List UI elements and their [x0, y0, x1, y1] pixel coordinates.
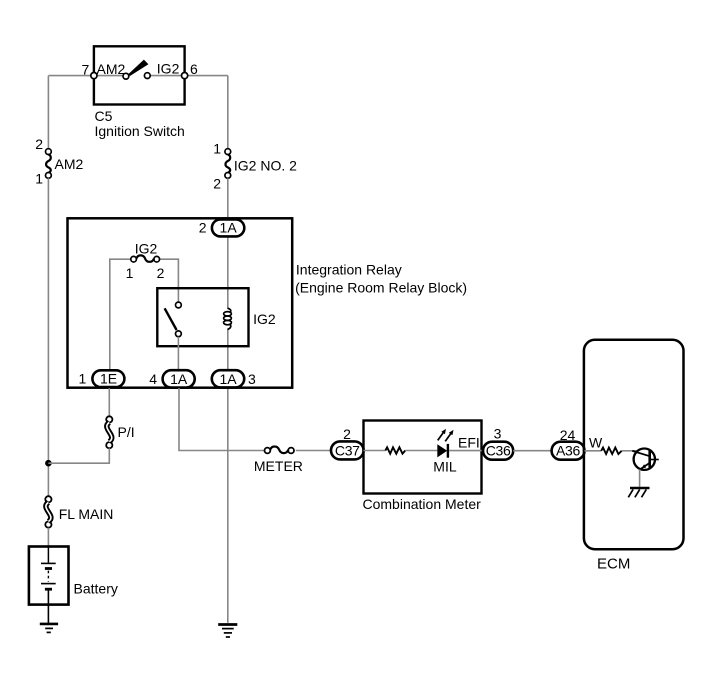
wire: IG2 fuse left branch down to connector 1E [110, 259, 131, 370]
pin label 1 (IG2 NO. 2 top) [213, 141, 221, 157]
fuse METER [265, 447, 295, 454]
svg-text:7: 7 [82, 62, 90, 78]
relay switch lever [165, 308, 177, 330]
pin label 7 [82, 62, 90, 78]
wire: LED to connector C36 [449, 450, 484, 452]
label Integration Relay [296, 261, 402, 277]
label EFI [458, 434, 480, 450]
svg-text:1: 1 [35, 171, 43, 187]
wire: pin 6 to right rail [185, 75, 228, 77]
svg-text:2: 2 [343, 426, 351, 442]
wire: left rail AM2 fuse down to FL MAIN [47, 178, 49, 496]
svg-text:A36: A36 [556, 443, 581, 459]
switch fixed contact [144, 73, 150, 79]
pin label 2 (C37) [343, 426, 351, 442]
svg-text:EFI: EFI [458, 434, 480, 450]
wire: A36 into ECM to resistor [585, 450, 602, 452]
svg-text:C36: C36 [486, 443, 511, 459]
svg-text:1: 1 [79, 371, 87, 387]
svg-text:Battery: Battery [74, 581, 118, 597]
wire: fuse IG2 NO. 2 down to connector 1A top [227, 178, 229, 219]
wire: IG2 fuse right branch down to relay switch [160, 259, 179, 302]
svg-text:1: 1 [213, 141, 221, 157]
svg-text:1A: 1A [170, 371, 188, 387]
pin label 3 (connector 1A pin 3) [248, 371, 256, 387]
fuse IG2 (inside relay block) [131, 255, 160, 262]
connector oval C37 (pin 2) [331, 441, 364, 459]
label Battery [74, 581, 118, 597]
value label METER [254, 458, 303, 474]
junction dot (P/I branch) [45, 460, 52, 467]
wire: resistor to transistor base [622, 450, 637, 452]
wire: left rail down to fuse AM2 [47, 76, 49, 150]
value label IG2 NO. 2 [234, 158, 297, 174]
svg-text:Integration Relay: Integration Relay [296, 261, 402, 277]
ground (relay block) [218, 625, 237, 638]
svg-text:1E: 1E [100, 371, 117, 387]
label C5 [95, 108, 113, 124]
wire: connector 1E down to fusible link P/I [108, 388, 110, 416]
connector oval 1A (top, pin 2) [212, 219, 244, 236]
svg-text:W: W [589, 435, 603, 451]
combination meter box [364, 421, 482, 494]
wire: P/I down and left to junction [48, 448, 109, 463]
integration relay box [68, 218, 293, 387]
switch pivot contact [123, 73, 129, 79]
svg-text:1A: 1A [220, 219, 238, 235]
svg-text:Ignition Switch: Ignition Switch [95, 123, 185, 139]
wire: C37 to resistor (inside meter) [364, 450, 386, 452]
pin label 2 (connector 1A top) [199, 219, 207, 235]
fuse AM2 [46, 149, 52, 179]
relay coil IG2 [224, 308, 232, 329]
relay switch contact (bottom) [176, 331, 182, 337]
terminal label IG2 [157, 61, 180, 77]
connector oval A36 (pin 24) [552, 442, 585, 460]
svg-text:IG2: IG2 [135, 240, 158, 256]
svg-text:C37: C37 [335, 442, 360, 458]
terminal label AM2 [97, 61, 126, 77]
resistor (combination meter) [385, 447, 405, 453]
net label W [589, 435, 603, 451]
ground (battery) [40, 624, 58, 633]
fusible link FL MAIN [45, 496, 51, 528]
label (Engine Room Relay Block) [295, 279, 467, 295]
svg-text:24: 24 [560, 427, 576, 443]
fusible link P/I [106, 416, 112, 448]
svg-text:2: 2 [35, 136, 43, 152]
svg-text:(Engine Room Relay Block): (Engine Room Relay Block) [295, 279, 467, 295]
svg-text:3: 3 [494, 425, 502, 441]
value label P/I [118, 424, 135, 440]
pin label 6 [190, 61, 198, 77]
transistor (ECM output) [632, 449, 659, 470]
relay IG2 inner box [157, 288, 248, 346]
wire: right rail down to fuse IG2 NO. 2 [227, 76, 229, 150]
svg-text:2: 2 [157, 265, 165, 281]
ground (ECM) [628, 488, 649, 497]
svg-text:2: 2 [213, 176, 221, 192]
wire: pin 7 to left rail [48, 75, 94, 77]
label ECM [597, 555, 630, 572]
pin label 2 (IG2 NO. 2 bottom) [213, 176, 221, 192]
ECM box [584, 340, 684, 549]
connector oval 1A (pin 4) [163, 370, 195, 387]
svg-text:1: 1 [126, 265, 134, 281]
pin 7 terminal [91, 73, 97, 79]
svg-text:IG2: IG2 [157, 61, 180, 77]
label Ignition Switch [95, 123, 185, 139]
svg-text:IG2 NO. 2: IG2 NO. 2 [234, 158, 297, 174]
pin label 3 (C36) [494, 425, 502, 441]
svg-text:AM2: AM2 [55, 156, 84, 172]
wire: battery to ground [47, 590, 49, 623]
resistor (ECM) [601, 448, 622, 454]
relay switch contact (top) [176, 302, 182, 308]
svg-text:IG2: IG2 [253, 311, 276, 327]
pin label 1 (fuse IG2 left) [126, 265, 134, 281]
wire: relay switch bottom down to connector 1A pin 4 [177, 337, 179, 371]
pin label 4 (connector 1A) [149, 371, 157, 387]
svg-text:AM2: AM2 [97, 61, 126, 77]
svg-text:ECM: ECM [597, 555, 630, 572]
svg-text:4: 4 [149, 371, 157, 387]
pin label 1 (AM2 bottom) [35, 171, 43, 187]
connector oval 1A (pin 3) [212, 370, 244, 387]
svg-text:FL MAIN: FL MAIN [59, 506, 114, 522]
connector oval 1E (pin 1) [92, 370, 124, 387]
pin 6 terminal [182, 73, 188, 79]
pin label 24 (A36) [560, 427, 576, 443]
wire: resistor to LED MIL [405, 450, 437, 452]
svg-text:Combination Meter: Combination Meter [363, 496, 482, 512]
label Combination Meter [363, 496, 482, 512]
battery cells [41, 547, 56, 590]
pin label 2 (AM2 top) [35, 136, 43, 152]
battery box [29, 547, 69, 605]
wire: C36 to A36 [513, 450, 551, 452]
svg-text:2: 2 [199, 219, 207, 235]
svg-text:6: 6 [190, 61, 198, 77]
value label AM2 [55, 156, 84, 172]
value label FL MAIN [59, 506, 114, 522]
svg-text:C5: C5 [95, 108, 113, 124]
svg-text:3: 3 [248, 371, 256, 387]
value label IG2 (fuse) [135, 240, 158, 256]
label IG2 (relay) [253, 311, 276, 327]
connector oval C36 (pin 3) [483, 442, 513, 460]
wire: connector 1A pin 4 down and right to METER fuse [179, 388, 266, 451]
wire: METER fuse to connector C37 [296, 450, 331, 452]
wire: switch internal IG2 side [150, 75, 184, 77]
pin label 2 (fuse IG2 right) [157, 265, 165, 281]
wire: relay coil down through connector 1A pin3 to ground [227, 329, 229, 623]
LED MIL [437, 429, 453, 458]
svg-text:METER: METER [254, 458, 303, 474]
switch lever [128, 60, 148, 76]
ignition switch box C5 [94, 46, 185, 104]
wire: switch internal AM2 side [94, 75, 123, 77]
fuse IG2 NO. 2 [225, 149, 231, 179]
svg-text:MIL: MIL [433, 458, 457, 474]
pin label 1 (connector 1E) [79, 371, 87, 387]
wire: FL MAIN to battery [47, 528, 49, 547]
svg-text:P/I: P/I [118, 424, 135, 440]
svg-text:1A: 1A [219, 371, 237, 387]
label MIL [433, 458, 457, 474]
wire: transistor emitter to ground [639, 469, 641, 486]
wire: connector 1A down to relay coil [227, 236, 229, 308]
